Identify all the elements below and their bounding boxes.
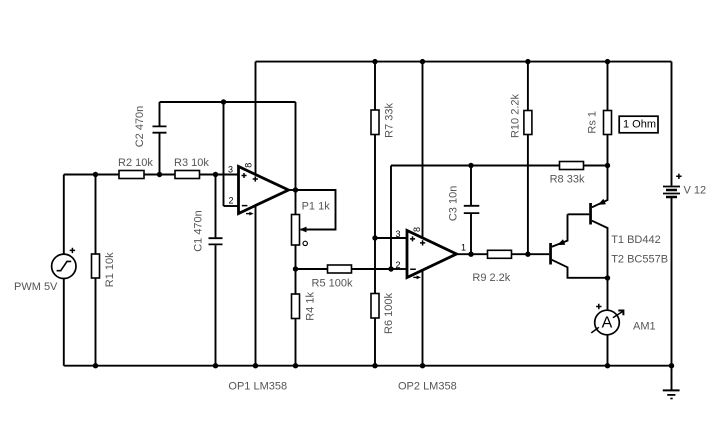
wire R4 bottom to ground rail [295,319,297,366]
svg-text:R1 10k: R1 10k [104,252,116,287]
resistor R9 2.2k [472,250,511,284]
svg-text:R9 2.2k: R9 2.2k [472,272,510,284]
resistor R7 33k [371,102,396,137]
node rail R10 [525,59,530,64]
node C3 bottom [468,252,473,257]
wire input row PWM to R2 [64,174,119,176]
node C1 top [213,172,218,177]
node OP2 pin2 [388,266,393,271]
wire C2 top column [159,102,161,126]
wire R9 to T2 base [512,253,550,255]
wire OP2 pin2 stub [391,268,407,270]
node feedback tap [221,99,226,104]
wire C3 top column [470,166,472,206]
wire PWM source bottom column [63,279,65,366]
wire C2 bottom column [159,134,161,175]
wire OP2 output to R9 [457,253,488,255]
svg-text:P1 1k: P1 1k [302,201,331,213]
wire R1 top column [95,175,97,255]
resistor R8 33k [550,162,585,186]
transistor T2 BC557B [549,239,668,265]
wire Rs column upper [607,62,609,111]
potentiometer P1 1k [292,201,331,246]
node P1 bottom [293,266,298,271]
wire feedback row to R8 [391,165,560,167]
resistor R4 1k [292,292,317,321]
resistor R3 10k [174,157,209,179]
svg-text:8: 8 [412,227,422,232]
wire ammeter bottom column [607,335,609,366]
wire R10 bottom to base node [527,135,529,255]
svg-text:R5 100k: R5 100k [312,278,353,290]
wire R10 column upper [527,62,529,111]
svg-text:A: A [602,315,613,332]
voltage source PWM 5V [14,248,76,293]
svg-text:2: 2 [229,196,234,206]
svg-text:1 Ohm: 1 Ohm [623,119,656,131]
svg-text:PWM 5V: PWM 5V [14,281,58,293]
svg-text:R8 33k: R8 33k [550,174,585,186]
wire OP1 power column x=255.5 [255,62,257,366]
wire P1 wiper loop [296,190,336,230]
wire R6 bottom to ground rail [374,318,376,366]
node rail R4 [293,363,298,368]
wire Rs bottom to R8 node [607,135,609,166]
wire P1 top column [295,190,297,215]
wire output-to-feedback column x=295.5 [295,102,297,190]
node OP2 pin3 [372,235,377,240]
ammeter AM1 [591,304,655,335]
svg-text:AM1: AM1 [633,321,656,333]
svg-text:C3 10n: C3 10n [448,186,460,221]
node OP1 output [293,187,298,192]
wire ammeter top column [607,278,609,310]
wire R2 to R3 [144,174,175,176]
wire PWM source top column [63,175,65,255]
node rail R1 [93,363,98,368]
resistor R2 10k [118,157,153,179]
svg-text:R7 33k: R7 33k [384,102,396,137]
wire C1 top column [215,175,217,238]
battery V 12 [663,174,706,197]
svg-text:C1 470n: C1 470n [193,210,205,252]
wire P1 bottom to R4 node [295,245,297,294]
node rail C1 [213,363,218,368]
wire T1 collector column [592,221,608,278]
wire battery column lower [671,198,673,366]
ground [663,390,680,398]
op-amp OP2 LM358 [396,227,467,393]
node rail AM1 [605,363,610,368]
node R10 bottom [525,252,530,257]
transistor T1 BD442 [589,199,661,246]
wire R4 node to R5 [296,268,328,270]
wire OP1 pin2 stub [224,205,239,207]
node C3 top [468,163,473,168]
svg-text:C2 470n: C2 470n [134,106,146,148]
node rail OP2 power [420,363,425,368]
wire OP2 feedback column x=391 [390,166,392,270]
wire inverting feedback column x=223.5 [223,102,225,206]
svg-text:T1 BD442: T1 BD442 [611,234,661,246]
wire R3 to OP1 pin3 [200,174,239,176]
wire R5 to OP2 pin2 node [352,268,392,270]
resistor R6 100k [371,293,395,334]
node rail OP2 power [420,59,425,64]
svg-text:R6 100k: R6 100k [383,293,395,334]
resistor Rs 1 [587,111,612,135]
resistor R1 10k [92,252,116,287]
wire T2 collector run [552,260,608,278]
resistor R10 2.2k [509,93,531,138]
svg-text:OP1 LM358: OP1 LM358 [228,381,287,393]
svg-text:R3 10k: R3 10k [174,157,209,169]
svg-text:R10 2.2k: R10 2.2k [509,93,521,138]
wire OP1 feedback top y=102 [160,101,296,103]
node Rs bottom [605,163,610,168]
wire R1 bottom column [95,278,97,366]
resistor R5 100k [312,265,353,290]
node rail R6 [372,363,377,368]
node R1 top [93,172,98,177]
svg-text:T2 BC557B: T2 BC557B [611,253,668,265]
svg-text:R2 10k: R2 10k [118,157,153,169]
wire bottom ground rail [64,365,672,367]
op-amp OP1 LM358 [228,163,289,393]
wire T1 base lead [568,213,590,215]
svg-text:3: 3 [396,229,401,239]
value box 1 Ohm [619,116,658,133]
wire C3 bottom column [470,214,472,254]
node rail battery [669,363,674,368]
wire top +12V rail [256,61,672,63]
svg-text:1: 1 [461,243,466,253]
node rail R7 [372,59,377,64]
capacitor C3 10n [448,186,480,221]
wire OP2 power column x=422.5 [422,62,424,366]
wire T2 emitter to T1 base column [552,214,568,247]
wire battery column upper [671,62,673,186]
wire C1 bottom column [215,245,217,366]
svg-text:Rs 1: Rs 1 [587,111,599,134]
node C2 bottom [157,172,162,177]
wire T1 emitter column [592,166,608,208]
wire R7 column upper [374,62,376,110]
capacitor C1 470n [193,210,223,252]
wire OP1 output stub [289,189,296,191]
node T1 collector [605,275,610,280]
wire R7 bottom to pin3 node and R6 top [374,135,376,294]
svg-text:3: 3 [228,164,233,174]
node rail OP1 power [253,363,258,368]
wire ground stub [671,366,673,390]
svg-text:R4 1k: R4 1k [304,292,316,321]
svg-text:V 12: V 12 [684,185,707,197]
svg-text:OP2 LM358: OP2 LM358 [398,381,457,393]
node rail Rs [605,59,610,64]
wire OP2 pin3 stub [375,237,407,239]
wire R8 to Rs node [584,165,608,167]
svg-text:2: 2 [396,260,401,270]
svg-text:8: 8 [243,163,253,168]
capacitor C2 470n [134,106,167,148]
